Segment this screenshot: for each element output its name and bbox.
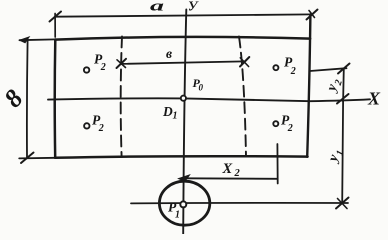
- big circle: [159, 181, 209, 225]
- lower-left label P2: [92, 113, 104, 134]
- dimension a line: [50, 10, 318, 38]
- dimension Y2 (right upper): [310, 64, 350, 104]
- dimension X2 label: [222, 161, 241, 179]
- dashed line left: [121, 37, 122, 157]
- upper-left point P2: [84, 67, 89, 72]
- svg-text:1: 1: [173, 111, 178, 122]
- label D1: [162, 104, 178, 122]
- label Y1: [325, 147, 346, 166]
- svg-text:2: 2: [98, 123, 104, 134]
- left vertical dimension b: [20, 37, 56, 163]
- label Y2: [324, 76, 345, 95]
- upper-right point P2: [273, 65, 278, 70]
- upper-right label P2: [284, 55, 296, 78]
- Y1 extension line through circle: [131, 202, 348, 205]
- svg-text:2: 2: [234, 168, 241, 179]
- lower-left point P2: [84, 123, 89, 128]
- point P1: [180, 201, 186, 207]
- svg-text:2: 2: [290, 66, 296, 77]
- svg-text:D: D: [162, 104, 173, 119]
- dimension X2: [179, 144, 278, 184]
- upper-left label P2: [94, 52, 106, 74]
- svg-text:2: 2: [100, 62, 106, 73]
- dimension Y1 (right lower): [336, 101, 349, 208]
- svg-text:1: 1: [175, 210, 180, 221]
- center point P0: [181, 96, 186, 101]
- svg-text:a: a: [150, 0, 164, 15]
- svg-text:Х: Х: [222, 161, 233, 177]
- svg-text:8: 8: [0, 84, 29, 113]
- svg-text:в: в: [166, 46, 172, 61]
- lower-right label P2: [281, 113, 293, 134]
- label P0: [193, 76, 204, 93]
- label P1: [168, 200, 180, 221]
- svg-text:У: У: [188, 0, 199, 14]
- lower-right point P2: [273, 121, 278, 126]
- Y axis: [183, 10, 186, 235]
- dimension b horizontal: [117, 57, 250, 68]
- svg-text:Х: Х: [367, 89, 381, 109]
- svg-text:0: 0: [199, 83, 204, 93]
- svg-text:2: 2: [287, 123, 293, 134]
- plate outline: [19, 15, 310, 159]
- dashed line right: [239, 37, 246, 157]
- X axis: [48, 98, 370, 101]
